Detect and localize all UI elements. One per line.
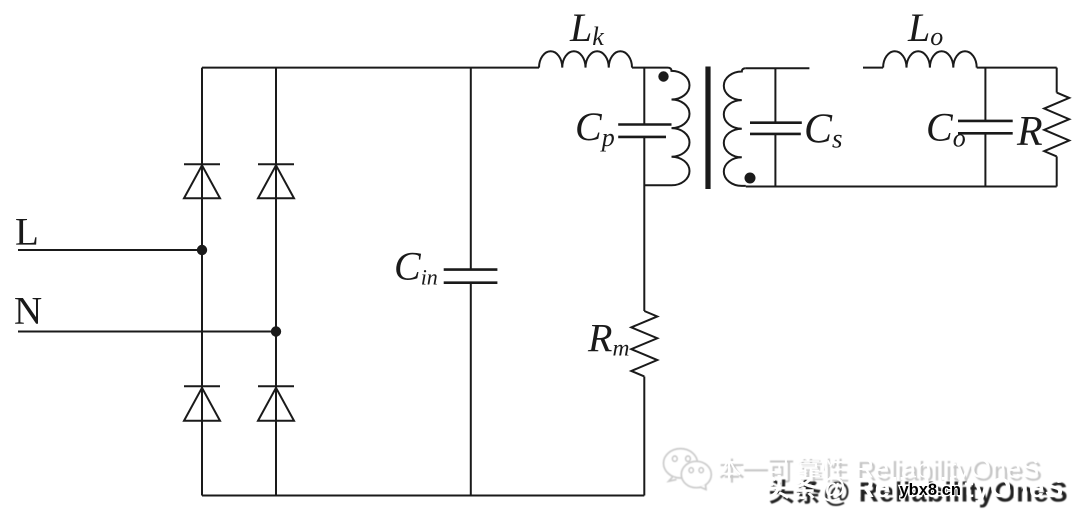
wire R branch lower [1056, 156, 1058, 186]
wire Rm to bottom rail [643, 377, 645, 496]
capacitor Cp branch wire upper [643, 68, 645, 125]
wire from Lk to transformer [632, 67, 668, 69]
label Cp [575, 104, 615, 152]
capacitor Cp branch wire lower [643, 137, 645, 311]
watermark wechat icon [664, 449, 712, 490]
label Cs [804, 107, 843, 154]
diode D2 [258, 164, 294, 198]
capacitor Cin branch wire lower [470, 283, 472, 496]
node N junction [271, 326, 281, 336]
label Co [926, 105, 966, 153]
capacitor Co branch wire upper [984, 68, 986, 121]
capacitor Cp plates [618, 125, 671, 137]
capacitor Cs plates [750, 123, 802, 134]
watermark line1 white [717, 454, 1039, 484]
label Rm [587, 316, 629, 362]
transformer core bar [705, 67, 710, 190]
label Lk [569, 5, 604, 51]
inductor Lk [539, 51, 632, 67]
capacitor Cs branch wire upper [774, 68, 776, 123]
watermark line2 shadow [770, 477, 1068, 508]
capacitor Co branch wire lower [984, 133, 986, 186]
capacitor Cin plates [444, 270, 498, 283]
capacitor Co plates [958, 121, 1013, 133]
resistor Rm [631, 311, 657, 376]
svg-text:ybx8.cn: ybx8.cn [900, 481, 961, 499]
node secondary polarity dot [745, 173, 756, 184]
resistor R [1044, 93, 1069, 157]
bridge leg left [201, 68, 203, 496]
inductor Lo [883, 51, 977, 67]
wire input N [18, 331, 276, 333]
label L [15, 211, 39, 254]
label Lo [907, 5, 943, 51]
transformer secondary winding [724, 68, 746, 186]
wire top rail primary [202, 67, 539, 69]
transformer primary winding [644, 68, 689, 186]
capacitor Cin branch wire upper [470, 68, 472, 270]
bridge leg right [275, 68, 277, 496]
label N [14, 290, 42, 333]
watermark line1 shadow [720, 457, 1042, 487]
wire input L [18, 249, 202, 251]
wire bottom rail primary [202, 495, 644, 497]
node L junction [197, 245, 207, 255]
label R [1016, 109, 1043, 155]
capacitor Cs branch wire lower [774, 134, 776, 187]
diode D3 [184, 386, 220, 421]
watermark line2 white [765, 472, 1063, 503]
node primary polarity dot [658, 71, 668, 81]
watermark url ybx8.cn [900, 481, 961, 499]
wire R branch upper [1056, 68, 1058, 93]
wire secondary bottom rail [746, 186, 1057, 188]
wire Lo to R corner [977, 67, 1057, 69]
diode D4 [258, 386, 294, 421]
diode D1 [184, 164, 220, 198]
label Cin [394, 244, 438, 290]
wire secondary top rail [746, 67, 883, 70]
